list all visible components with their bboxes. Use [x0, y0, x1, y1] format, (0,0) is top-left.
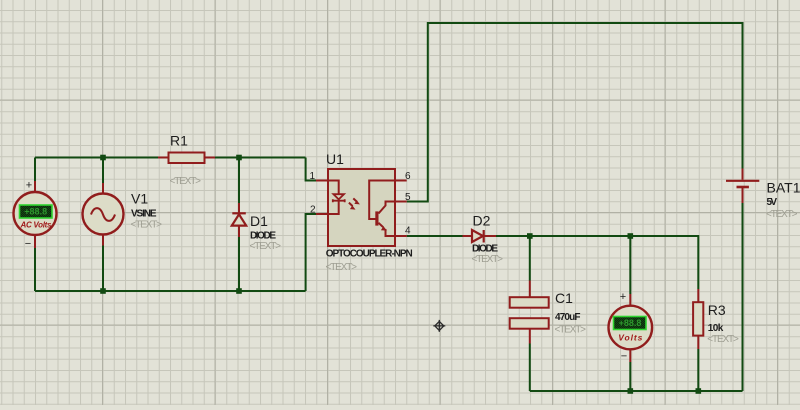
junction node D1 top [236, 155, 242, 161]
R1 right pin lead [205, 157, 216, 159]
svg-text:4: 4 [405, 226, 411, 237]
PV2 LCD display [614, 317, 647, 330]
svg-text:OPTOCOUPLER-NPN: OPTOCOUPLER-NPN [326, 249, 413, 260]
R3 top pin lead [697, 289, 699, 302]
capacitor C1 [510, 281, 549, 344]
BAT1 positive pin lead [742, 169, 744, 180]
V1 sine symbol [91, 208, 115, 221]
D1 triangle [232, 214, 246, 225]
junction node D1 bottom [236, 288, 242, 294]
wire C1 bottom [529, 344, 531, 392]
BAT1 negative pin lead [742, 188, 744, 203]
svg-text:DIODE: DIODE [472, 244, 498, 255]
svg-text:R1: R1 [170, 133, 188, 149]
svg-text:C1: C1 [555, 290, 573, 306]
U1 pin 4 stub [395, 235, 407, 237]
PV1 LCD display [20, 205, 53, 218]
source V1 VSINE [83, 183, 124, 246]
U1 pin 1 stub [316, 180, 328, 182]
voltmeter PV2 (Volts) [609, 291, 653, 363]
svg-text:−: − [25, 238, 31, 250]
resistor R1 [158, 153, 215, 164]
U1 internal LED cathode path [328, 202, 339, 215]
wire D1 bottom vertical [238, 237, 240, 291]
wire voltmeter PV1 top vertical [34, 158, 36, 182]
PV1 top pin lead [34, 181, 36, 192]
D1 cathode bar [232, 212, 246, 214]
svg-text:+88.8: +88.8 [24, 207, 47, 217]
PV1 bottom pin lead [34, 236, 36, 249]
D1 cathode pin lead [238, 203, 240, 213]
svg-text:<TEXT>: <TEXT> [326, 262, 358, 273]
wire voltmeter PV1 bottom vertical [34, 248, 36, 291]
svg-text:470uF: 470uF [555, 312, 581, 323]
D2 triangle [472, 230, 483, 242]
battery BAT1 [726, 169, 759, 204]
optocoupler U1 [316, 169, 407, 246]
svg-text:VSINE: VSINE [131, 209, 157, 220]
svg-text:5V: 5V [767, 197, 778, 208]
U1 internal LED anode path [328, 181, 339, 194]
C1 top plate [510, 297, 549, 308]
svg-text:D1: D1 [250, 213, 268, 229]
wire voltmeter PV2 bottom [629, 362, 631, 391]
svg-text:1: 1 [309, 171, 315, 182]
svg-text:5: 5 [405, 192, 411, 203]
PV1 meter body circle [14, 192, 57, 235]
wire voltmeter PV2 top branch [629, 236, 631, 294]
svg-text:<TEXT>: <TEXT> [250, 241, 282, 252]
PV2 bottom pin lead [629, 350, 631, 363]
resistor R3 [693, 289, 703, 349]
svg-text:<TEXT>: <TEXT> [170, 176, 202, 187]
svg-text:10k: 10k [708, 323, 724, 334]
wire D1 top branch [238, 158, 240, 204]
PV2 top pin lead [629, 294, 631, 306]
svg-text:V1: V1 [131, 191, 148, 207]
D2 cathode pin lead [485, 235, 497, 237]
svg-text:<TEXT>: <TEXT> [707, 334, 739, 345]
wire U1 pin5 to battery top rail [407, 23, 743, 202]
PV2 meter body circle [609, 306, 653, 350]
U1 pin 6 stub [395, 180, 407, 182]
wire V1 top vertical [102, 158, 104, 184]
svg-text:+88.8: +88.8 [619, 318, 642, 328]
wire C1 top branch [529, 236, 531, 281]
wire R1 right to pin1 corner [215, 157, 306, 159]
junction node V1 bottom [100, 288, 106, 294]
svg-text:Volts: Volts [618, 332, 642, 342]
svg-text:<TEXT>: <TEXT> [131, 220, 163, 231]
D2 cathode bar [483, 230, 485, 243]
wire riser to U1 pin 2 [306, 214, 316, 291]
wire bottom-left rail [35, 290, 306, 292]
svg-text:U1: U1 [326, 151, 344, 167]
wire D2 cathode to R3 corner [496, 236, 698, 289]
svg-text:+: + [26, 180, 32, 192]
V1 bottom pin lead [102, 234, 104, 246]
U1 emitter arrowhead [381, 226, 387, 230]
D2 anode pin lead [463, 235, 473, 237]
U1 phototransistor base bar [375, 211, 378, 225]
D1 anode pin lead [238, 226, 240, 238]
U1 phototransistor emitter [379, 223, 396, 236]
U1 pin 5 stub [395, 201, 407, 203]
U1 phototransistor collector [379, 202, 396, 214]
V1 body circle [83, 194, 124, 235]
junction node V1 top [100, 155, 106, 161]
diode D2 [463, 230, 497, 243]
wire V1 bottom vertical [102, 246, 104, 292]
U1 body [328, 169, 395, 246]
R1 left pin lead [158, 157, 169, 159]
svg-text:6: 6 [405, 171, 411, 182]
junction node PV2 bottom [628, 388, 634, 394]
wire drop to U1 pin 1 [306, 158, 316, 181]
svg-text:BAT1: BAT1 [767, 180, 800, 196]
svg-text:−: − [621, 351, 627, 363]
svg-text:<TEXT>: <TEXT> [472, 254, 504, 265]
wire R3 bottom [697, 349, 699, 391]
BAT1 negative plate (short bar) [737, 186, 749, 189]
U1 light arrow 1 [353, 198, 357, 202]
C1 top pin lead [529, 281, 531, 298]
svg-text:+: + [620, 291, 626, 303]
C1 bottom plate [510, 318, 549, 329]
svg-text:<TEXT>: <TEXT> [766, 209, 798, 220]
wire battery bottom vertical [742, 203, 744, 391]
R1 body [169, 153, 205, 164]
BAT1 positive plate (long bar) [726, 180, 759, 182]
wire bottom-right rail [530, 390, 743, 392]
diode D1 [232, 203, 246, 237]
R3 body [693, 302, 703, 335]
U1 pin 2 stub [316, 213, 328, 215]
junction node PV2 top [628, 233, 634, 239]
voltmeter PV1 (AC Volts) [14, 180, 57, 251]
junction node C1 top [527, 233, 533, 239]
svg-text:AC Volts: AC Volts [20, 220, 53, 229]
origin marker [433, 320, 445, 332]
wire top-left rail (left corner to R1 left lead) [35, 157, 158, 159]
svg-text:<TEXT>: <TEXT> [555, 325, 587, 336]
R3 bottom pin lead [697, 336, 699, 349]
junction node R3 bottom [696, 388, 702, 394]
svg-text:2: 2 [310, 205, 316, 216]
svg-text:R3: R3 [708, 302, 726, 318]
wire U1 pin4 to D2 anode [407, 235, 463, 237]
U1 internal LED [333, 194, 344, 199]
U1 light arrow 2 [349, 203, 353, 207]
U1 phototransistor base feed from pin 6 [369, 181, 395, 220]
V1 top pin lead [102, 183, 104, 194]
C1 bottom pin lead [529, 329, 531, 344]
svg-text:D2: D2 [473, 213, 491, 229]
